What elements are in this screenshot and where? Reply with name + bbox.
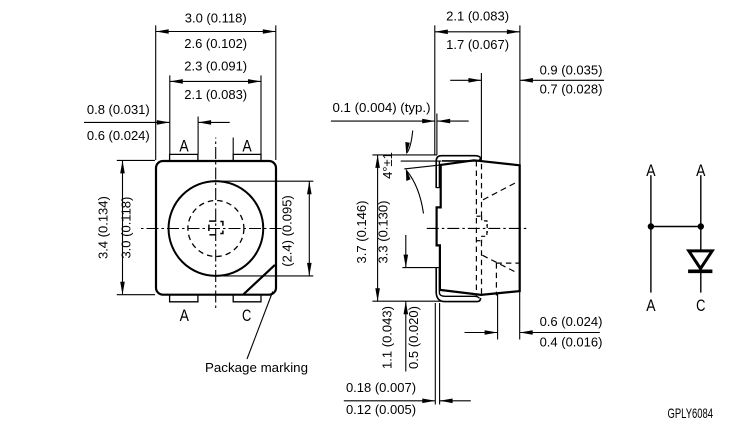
wire anode left (650, 175, 652, 292)
svg-text:A: A (242, 137, 252, 156)
inner dashed circle (188, 201, 244, 257)
slope extension line (404, 165, 440, 169)
chip mark segments (209, 221, 223, 235)
dimension 0.6/0.4 extension lines (497, 294, 499, 340)
dimension 3.4/3.0 extension lines (117, 159, 155, 161)
bottom terminal pad 1 (170, 295, 198, 302)
dimension 3.7/3.3 extension lines (372, 154, 437, 156)
svg-text:3.7 (0.146): 3.7 (0.146) (354, 201, 369, 264)
dimension line 0.18/0.12 (344, 399, 471, 404)
svg-text:3.0 (0.118): 3.0 (0.118) (119, 197, 134, 259)
dimension line 3.0/2.6 (156, 29, 276, 34)
svg-text:3.0 (0.118): 3.0 (0.118) (185, 11, 247, 26)
lens edge dashed line 1 (475, 161, 477, 297)
svg-text:Package marking: Package marking (205, 360, 308, 375)
svg-text:0.6 (0.024): 0.6 (0.024) (540, 314, 603, 329)
svg-text:0.6 (0.024): 0.6 (0.024) (87, 128, 150, 143)
dimension 2.3/2.1 extension lines (169, 75, 171, 154)
junction node left (648, 223, 654, 229)
dimension 2.1/1.7 extension lines (434, 25, 436, 155)
dimension (2.4) extension lines (217, 180, 313, 182)
svg-text:A: A (179, 137, 189, 156)
package body outline (156, 161, 276, 295)
lens base dashed vertical (495, 263, 497, 295)
leader from 0.1 to lead top (405, 131, 412, 155)
svg-text:C: C (242, 306, 251, 325)
dimension 1.1/0.5 extension line (402, 267, 439, 269)
horizontal centerline (140, 228, 281, 230)
dimension 0.1 typ extension lines (436, 114, 438, 155)
upper lead (436, 156, 480, 188)
pad edge stub lines (197, 117, 199, 155)
svg-text:1.7 (0.067): 1.7 (0.067) (446, 37, 509, 52)
reflector cone dashed lower (482, 255, 517, 273)
dimension line 0.1 typ (331, 119, 469, 124)
svg-text:4°±1: 4°±1 (380, 152, 395, 179)
svg-text:(2.4) (0.095): (2.4) (0.095) (279, 195, 294, 267)
lens base dashed horizontal (496, 262, 519, 264)
svg-text:2.1 (0.083): 2.1 (0.083) (446, 9, 509, 24)
dimension line 2.1/1.7 (435, 30, 520, 35)
diode D1 (688, 251, 712, 271)
dimension line 2.3/2.1 (170, 79, 261, 84)
svg-text:A: A (646, 296, 656, 315)
dimension 0.8/0.6 lines (84, 120, 230, 125)
dimension line 3.4/3.0 (120, 160, 125, 294)
top terminal pad 1 (170, 154, 198, 161)
junction node right (698, 223, 704, 229)
leader to package marking (247, 292, 273, 360)
svg-text:0.9 (0.035): 0.9 (0.035) (540, 63, 603, 78)
svg-text:0.7 (0.028): 0.7 (0.028) (540, 81, 603, 96)
svg-text:2.6 (0.102): 2.6 (0.102) (184, 36, 247, 51)
body outline (437, 160, 520, 295)
svg-text:0.5 (0.020): 0.5 (0.020) (406, 306, 421, 369)
svg-text:0.4 (0.016): 0.4 (0.016) (540, 335, 603, 350)
corner chamfer (package marking) (244, 265, 275, 294)
svg-text:A: A (180, 306, 190, 325)
svg-text:A: A (646, 161, 656, 180)
angle leader 4deg (406, 168, 424, 214)
lens circle (169, 181, 264, 276)
dimension 0.9/0.7 extension line (480, 73, 482, 162)
svg-text:1.1 (0.043): 1.1 (0.043) (380, 306, 395, 369)
dimension line (2.4) (307, 181, 312, 276)
dimension line 3.7/3.3 (375, 155, 380, 301)
svg-text:0.1 (0.004) (typ.): 0.1 (0.004) (typ.) (333, 100, 431, 115)
dimension line 0.9/0.7 (450, 78, 604, 83)
svg-text:C: C (696, 296, 705, 315)
lower lead (436, 268, 480, 302)
svg-text:2.3 (0.091): 2.3 (0.091) (184, 59, 247, 74)
die dashed cluster (477, 216, 488, 241)
dimension line 0.6/0.4 (465, 330, 600, 335)
vertical centerline (215, 138, 217, 310)
svg-text:3.3 (0.130): 3.3 (0.130) (376, 201, 391, 264)
svg-text:GPLY6084: GPLY6084 (668, 405, 714, 421)
dimension line 1.1/0.5 (outside arrows) (404, 235, 409, 372)
side view centerline (427, 227, 527, 229)
top terminal pad 2 (233, 154, 261, 161)
dimension 3.0/2.6 extension lines (155, 25, 157, 160)
svg-text:3.4 (0.134): 3.4 (0.134) (96, 196, 111, 259)
wire anode right (700, 175, 702, 292)
bottom terminal pad 2 (233, 295, 261, 302)
svg-text:0.18 (0.007): 0.18 (0.007) (346, 380, 416, 395)
reflector cone dashed upper (483, 182, 518, 200)
lens edge dashed line 2 (481, 164, 483, 295)
dimension 0.18/0.12 extension lines (434, 303, 436, 405)
svg-text:2.1 (0.083): 2.1 (0.083) (184, 87, 247, 102)
svg-text:0.8 (0.031): 0.8 (0.031) (87, 102, 150, 117)
wire bridge (651, 226, 701, 228)
svg-text:A: A (696, 161, 706, 180)
svg-text:0.12 (0.005): 0.12 (0.005) (346, 402, 416, 417)
